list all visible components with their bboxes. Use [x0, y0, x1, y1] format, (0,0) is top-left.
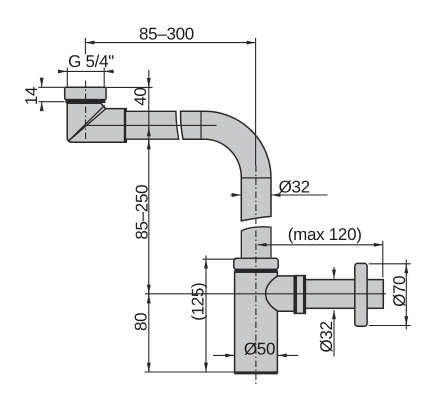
wire centerline vertical through elbow: [85, 81, 87, 142]
elbow socket end thick line: [124, 109, 127, 143]
svg-text:(max 120): (max 120): [288, 225, 362, 244]
bend joint line horizontal: [241, 177, 271, 179]
svg-text:(125): (125): [188, 283, 207, 321]
dimension diameter 70: [405, 260, 407, 330]
wall flange: [355, 263, 367, 326]
svg-text:Ø50: Ø50: [244, 340, 275, 359]
wire centerline horizontal through elbow outlet pipe: [87, 124, 217, 126]
pipe segment B with 90 degree bend: [181, 111, 271, 221]
dimension diameter 50: [213, 354, 234, 356]
wire centerline horizontal through trap outlet: [145, 293, 386, 295]
svg-text:85–300: 85–300: [139, 24, 194, 43]
svg-text:80: 80: [131, 313, 150, 331]
bend joint line vertical: [200, 111, 202, 139]
dimension G 5/4": [58, 70, 67, 72]
elbow miter edge lines: [69, 105, 106, 141]
dimension diameter 32 vertical pipe: [231, 194, 241, 196]
svg-text:Ø32: Ø32: [279, 177, 310, 196]
outlet bell cone: [266, 276, 295, 311]
svg-text:40: 40: [131, 87, 150, 105]
svg-text:Ø32: Ø32: [317, 321, 336, 352]
dimension (125): [205, 256, 207, 373]
dimension 14: [41, 79, 43, 87]
trap top nut: [234, 258, 278, 269]
dimension 40: [148, 70, 150, 144]
dimension (max 120): [258, 244, 383, 246]
pipe segment A (horizontal, from elbow): [126, 111, 179, 139]
dimension diameter 32 outlet pipe: [333, 267, 335, 279]
elbow body: [67, 103, 126, 142]
svg-text:G 5/4": G 5/4": [68, 52, 114, 71]
nut collar band: [65, 99, 105, 103]
dimension 85-250: [148, 140, 150, 294]
pipe segment C (trap inlet): [241, 227, 271, 257]
dimension 80: [148, 294, 150, 372]
nut G5/4 (wall connection nut): [65, 87, 106, 99]
trap body bottom thick line: [234, 371, 278, 374]
trap nut band: [234, 269, 277, 272]
dimension 85-300 top: [85, 42, 255, 44]
svg-text:14: 14: [22, 87, 41, 105]
outlet pipe: [305, 280, 383, 309]
outlet nut thick edge left: [294, 276, 297, 314]
trap body (cup): [235, 272, 278, 372]
outlet nut: [294, 276, 305, 314]
svg-text:85–250: 85–250: [132, 185, 151, 240]
svg-text:Ø70: Ø70: [390, 276, 409, 307]
outlet nut thick edge right: [303, 276, 305, 314]
wire centerline vertical through vertical pipe and trap body: [255, 166, 257, 385]
